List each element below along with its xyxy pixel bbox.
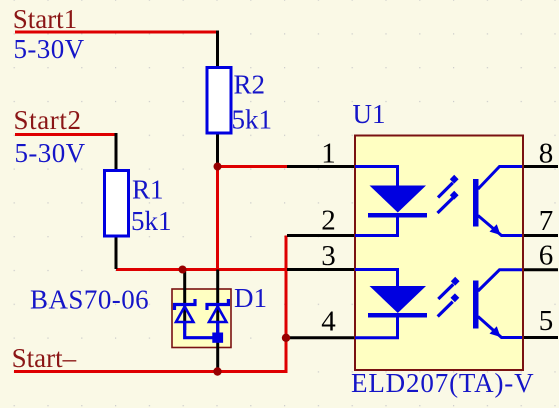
U1 phototransistor B collector xyxy=(478,270,522,291)
wire node A to pin1 (red) xyxy=(218,165,289,168)
U1 phototransistor A emitter xyxy=(478,216,522,236)
svg-text:4: 4 xyxy=(321,306,336,338)
U1 LED B triangle xyxy=(370,286,427,313)
wire red vertical from node A down xyxy=(216,165,219,270)
svg-text:U1: U1 xyxy=(353,99,386,129)
svg-text:ELD207(TA)-V: ELD207(TA)-V xyxy=(351,368,535,398)
svg-text:5k1: 5k1 xyxy=(232,105,273,135)
wire Start2 net (red) xyxy=(15,133,118,136)
junction node below R2 xyxy=(214,163,222,171)
svg-text:BAS70-06: BAS70-06 xyxy=(30,285,149,315)
svg-text:D1: D1 xyxy=(234,283,267,313)
U1 phototransistor B emitter xyxy=(478,317,522,338)
svg-text:Start2: Start2 xyxy=(14,105,82,135)
svg-text:1: 1 xyxy=(321,138,336,170)
svg-text:6: 6 xyxy=(539,240,554,272)
svg-text:R2: R2 xyxy=(234,70,266,100)
D1 right diode (schottky, up) xyxy=(207,299,228,333)
wire red vertical pin2-pin4-Start- xyxy=(285,236,288,372)
wire Start1 net (red) xyxy=(15,31,219,34)
U1 phototransistor A collector xyxy=(478,167,522,190)
wire R2 top stem (black) xyxy=(216,31,219,67)
wire R2 bottom stem (black) xyxy=(216,135,219,165)
svg-text:5: 5 xyxy=(539,305,554,337)
svg-text:5-30V: 5-30V xyxy=(15,138,86,168)
wire R1 bottom stem (black) xyxy=(115,238,118,270)
junction node on R1 net xyxy=(179,266,187,274)
wire Start- net (red bottom) xyxy=(14,370,288,373)
wire R1 top stem (black) xyxy=(115,133,118,169)
pin 4 of U1 xyxy=(286,336,356,339)
svg-text:5k1: 5k1 xyxy=(131,206,172,236)
U1 phototransistor A emitter arrow xyxy=(490,224,501,235)
pin 3 of U1 xyxy=(287,268,356,271)
svg-text:Start–: Start– xyxy=(12,343,77,373)
U1 LED A triangle xyxy=(370,186,427,213)
junction node on Start- net xyxy=(213,367,221,375)
svg-text:8: 8 xyxy=(539,138,554,170)
D1 common anode junction square xyxy=(212,333,223,343)
U1 LED A cathode lead xyxy=(355,217,398,236)
pin 5 of U1 xyxy=(522,336,558,339)
svg-text:3: 3 xyxy=(321,240,336,272)
U1 phototransistor A base bar xyxy=(473,179,479,227)
pin 1 of U1 xyxy=(287,165,356,168)
wire D1 cathode pin 2 + common anode pin (black vertical) xyxy=(216,270,219,372)
pin 2 of U1 xyxy=(287,234,356,237)
resistor R2 body xyxy=(207,68,231,134)
U1 LED B cathode lead xyxy=(355,317,398,338)
U1 phototransistor B base bar xyxy=(473,281,479,329)
U1 light arrow A1 xyxy=(438,175,459,198)
pin 8 of U1 xyxy=(522,165,558,168)
svg-text:5-30V: 5-30V xyxy=(14,34,85,64)
U1 light arrow B2 xyxy=(438,293,460,316)
resistor R1 body xyxy=(105,171,129,237)
pin 7 of U1 xyxy=(522,234,558,237)
wire R1 bottom net to pin3 (red) xyxy=(116,268,289,271)
U1 LED B cathode bar xyxy=(368,313,427,318)
D1 left diode (schottky, up) xyxy=(175,299,217,338)
svg-text:2: 2 xyxy=(321,205,336,237)
U1 LED A cathode bar xyxy=(368,213,427,218)
svg-text:R1: R1 xyxy=(132,175,164,205)
svg-text:7: 7 xyxy=(539,205,554,237)
optocoupler U1 body xyxy=(355,136,523,371)
junction node at pin 4 xyxy=(282,334,290,342)
U1 LED B anode lead xyxy=(355,270,398,288)
U1 light arrow A2 xyxy=(438,191,459,213)
U1 light arrow B1 xyxy=(438,277,459,299)
wire D1 cathode pin 1 (black, through left diode) xyxy=(183,270,186,331)
U1 LED A anode lead xyxy=(355,167,398,187)
pin 6 of U1 xyxy=(522,268,558,271)
U1 phototransistor B emitter arrow xyxy=(490,326,501,337)
svg-text:Start1: Start1 xyxy=(13,4,78,34)
diode pack D1 body xyxy=(172,289,231,348)
